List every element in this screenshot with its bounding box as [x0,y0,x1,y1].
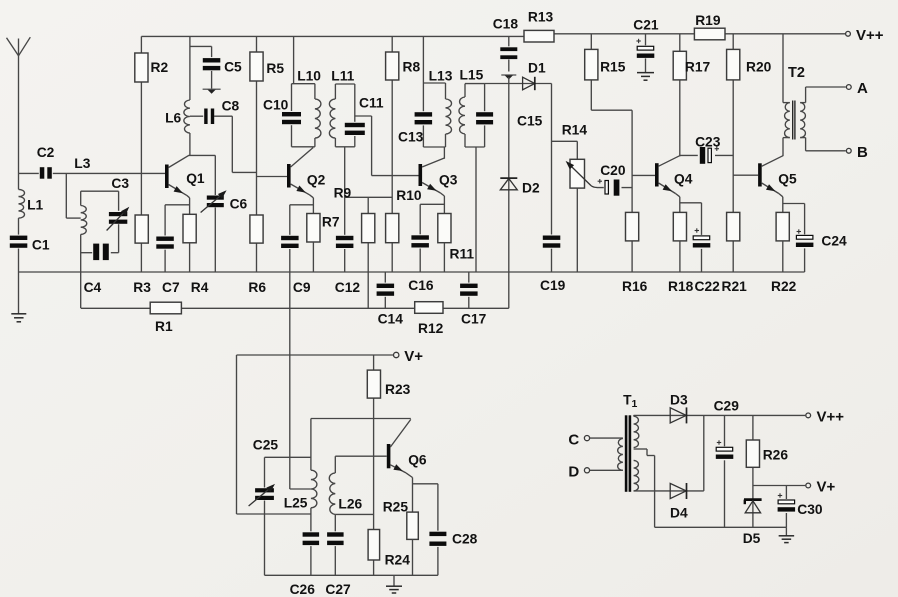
diode D2 [500,178,540,195]
inductor L6 [165,100,190,133]
svg-text:C4: C4 [84,280,102,295]
capacitor C10 [263,98,302,126]
capacitor C29 electrolytic [714,399,740,528]
capacitor C13 [398,111,433,144]
transistor Q3 [419,158,458,193]
svg-text:L26: L26 [338,497,362,512]
terminal V+ power [806,479,836,496]
capacitor C11 [344,96,384,137]
svg-text:R16: R16 [622,279,648,294]
capacitor C15 [475,111,543,128]
svg-text:C6: C6 [230,197,248,212]
diode D4 [670,483,688,521]
svg-text:R14: R14 [562,123,588,138]
wire R11 to bus [443,243,445,272]
wire oscillator bottom rail [265,574,438,576]
resistor R17 [673,51,710,80]
svg-text:V+: V+ [404,348,423,365]
capacitor C22 electrolytic [692,203,720,294]
wire Q5 emitter branch [783,203,805,205]
svg-text:C12: C12 [335,280,361,295]
wire rectifier bottom [634,490,704,492]
wire C lead [590,437,623,439]
wire R18 to bus [679,241,681,272]
wire R7 to bus [312,242,314,272]
wire C5 to ground arrow [211,71,213,89]
inductor L26 [329,456,362,575]
variable capacitor C6 [201,190,248,212]
wire R20 R21 column [732,34,734,272]
svg-text:R1: R1 [155,319,173,334]
svg-text:R24: R24 [385,553,411,568]
wire R5 R6 column [256,36,258,272]
transformer T1 core [625,415,631,492]
wire Q1 collector column from rail [189,36,191,155]
terminal V++ power [806,409,844,426]
transformer T1 secondary upper [634,415,639,447]
svg-text:C21: C21 [633,18,659,33]
svg-text:C15: C15 [517,114,543,129]
wire Q1 emitter elbow [187,195,190,214]
wire Q1 emitter bypass branch [165,205,190,272]
svg-text:Q4: Q4 [674,172,693,187]
svg-text:R8: R8 [403,60,421,75]
svg-text:L1: L1 [27,198,43,213]
wire input tank right edge [118,191,120,253]
inductor L10 [297,69,321,147]
svg-text:R21: R21 [722,279,748,294]
svg-text:C2: C2 [37,145,55,160]
wire L10 tank bottom edge [292,146,315,148]
wire R23 R24 column [373,355,375,575]
wire top supply rail right segment to V++ [554,33,845,35]
resistor R18 [668,212,694,294]
ground [637,73,654,81]
wire Q6 base [335,455,387,457]
svg-text:Q5: Q5 [778,172,797,187]
resistor R21 [722,212,748,294]
inductor L11 [329,69,354,147]
wire L26 bottom to R24 column [335,513,373,515]
svg-text:C26: C26 [290,582,316,597]
svg-text:D1: D1 [528,61,546,76]
wire antenna to C2 node down to L1 [18,173,20,189]
wire Q4 emitter branch [680,202,702,204]
resistor R5 [250,52,284,81]
wire rail feed and L13 tank left edge [422,36,424,147]
wire oscillator collector line [311,418,411,420]
ground [203,89,221,94]
svg-text:B: B [857,144,868,161]
wire Q4 collector column [679,34,681,157]
svg-text:C22: C22 [695,279,721,294]
wire R16 column [631,110,633,272]
wire oscillator V+ rail [237,354,394,356]
wire Q3 emitter branch [420,204,444,272]
svg-text:R17: R17 [685,60,711,75]
svg-text:C23: C23 [695,135,721,150]
wire Q4 emitter elbow [676,194,680,213]
wire C8 left stub [190,115,204,117]
wire Q1 collector horizontal to C6 [189,154,216,156]
capacitor C24 electrolytic [795,204,847,273]
wire input tank bottom edge [81,252,119,254]
capacitor C26 [290,531,321,597]
resistor R9 [334,186,375,243]
wire Q1 base entry [164,172,166,174]
svg-text:C24: C24 [821,234,847,249]
svg-text:C10: C10 [263,98,289,113]
wire L10 tank top edge [292,83,315,85]
svg-text:C17: C17 [461,312,487,327]
svg-text:L11: L11 [331,69,354,84]
wire R9 node [345,196,393,198]
svg-text:A: A [857,80,868,97]
inductor L25 [284,419,317,576]
wire R22 to bus [782,241,784,272]
wire L10 tank left edge [291,84,293,147]
svg-text:C18: C18 [493,17,519,32]
wire Q3 base [372,175,419,177]
wire Q6 emitter elbow [406,473,413,512]
wire C25 bottom column [264,501,266,576]
wire L15 tank bottom stub to bus [475,147,477,272]
wire ground bus [19,271,805,273]
resistor R10 [386,188,422,243]
svg-text:Q3: Q3 [439,173,458,188]
svg-text:V++: V++ [856,27,884,44]
wire R9 column [367,197,369,308]
wire Q5 emitter elbow [779,194,783,213]
svg-text:L15: L15 [460,68,484,83]
wire R14 to bus [576,188,578,272]
wire R4 to bus [189,243,191,272]
terminal V++ [846,27,884,44]
svg-text:L10: L10 [297,69,321,84]
wire D4 output up to top rail [703,415,705,491]
wire L15 tank top edge to detector [465,83,485,85]
capacitor C14 [376,272,404,327]
svg-text:R5: R5 [266,61,284,76]
wire R8 R10 column [391,36,393,272]
svg-text:Q1: Q1 [186,171,205,186]
wire Q2 emitter elbow [310,195,314,214]
wire rail feed to L10 tank [293,36,295,83]
capacitor C4 [84,243,110,295]
svg-text:C8: C8 [222,99,240,114]
svg-text:R4: R4 [191,280,209,295]
wire R26 D5 column [752,415,754,527]
svg-text:C7: C7 [162,280,180,295]
wire L11 bottom stub to R9 node and C12 [344,147,346,272]
capacitor C2 [37,145,55,180]
wire R15 column [591,34,632,110]
svg-text:C27: C27 [325,582,351,597]
wire L15 tank bottom edge [465,146,485,148]
wire C9 oscillator injection line [290,205,311,489]
zener diode D5 [743,500,762,546]
antenna [7,37,31,173]
wire V+ branch [753,485,805,487]
svg-text:L13: L13 [429,69,453,84]
svg-text:R7: R7 [322,215,340,230]
terminal V+ [394,348,424,365]
wire C20 output to bias node [597,187,633,189]
diode D1 [523,61,546,91]
wire secondary to A [806,86,846,88]
inductor L1 [19,189,44,218]
wire L1 to C1 [18,218,20,235]
resistor R1 [150,302,181,334]
svg-text:V++: V++ [817,409,845,426]
svg-text:R26: R26 [763,448,789,463]
transformer T2 core [793,101,795,140]
wire L11 tank top edge [335,83,354,85]
wire power bottom [655,526,787,528]
resistor R25 [383,500,419,540]
wire C19 column from D1 [551,84,553,273]
svg-text:V+: V+ [817,479,836,496]
wire C8 to Q2 base divider [214,116,257,172]
wire Q2 emitter branch to C9 [290,204,314,206]
wire oscillator tank bottom [237,513,311,515]
svg-text:C11: C11 [359,96,384,111]
wire L3 tap [66,173,80,218]
variable capacitor C25 [249,438,279,507]
svg-text:C3: C3 [111,176,129,191]
wire L13 tank bottom edge [423,146,445,148]
svg-text:D2: D2 [522,181,540,196]
svg-text:R18: R18 [668,279,694,294]
svg-text:D3: D3 [670,393,688,408]
wire Q1 base line from antenna to Q1 [19,172,166,174]
svg-text:C30: C30 [797,502,823,517]
terminal C [568,432,589,449]
wire AGC line [81,307,509,309]
svg-text:C25: C25 [253,438,279,453]
capacitor C23 electrolytic [695,135,721,165]
transistor Q2 [287,148,326,195]
wire L15 tank right edge [484,84,486,147]
svg-text:C: C [568,432,579,449]
resistor R2 [135,53,169,82]
wire center tap [634,449,655,527]
svg-text:C14: C14 [378,312,404,327]
svg-text:C20: C20 [600,163,626,178]
resistor R12 [415,302,444,336]
resistor R26 [746,440,788,467]
svg-text:R23: R23 [385,382,411,397]
svg-text:C28: C28 [452,532,478,547]
resistor R15 [585,49,626,80]
capacitor C19 [540,235,566,294]
diode D3 [670,393,688,424]
wire Q6 emitter branch [413,483,438,485]
capacitor C20 electrolytic [598,163,626,197]
capacitor C1 [9,235,50,253]
wire ground stem [785,527,787,536]
transistor Q4 [655,156,693,194]
transformer T1 primary [618,393,638,471]
capacitor C16 [408,234,434,293]
svg-text:R9: R9 [334,186,352,201]
resistor R7 [307,214,340,243]
svg-text:L3: L3 [74,156,90,171]
capacitor C17 [459,272,487,327]
wire oscillator left side [236,355,238,514]
svg-text:R15: R15 [600,60,626,75]
wire detector line [485,83,552,85]
svg-text:C29: C29 [714,399,740,414]
svg-text:R10: R10 [396,188,422,203]
resistor R16 [622,212,648,294]
transistor Q6 [387,419,427,473]
svg-text:T2: T2 [788,65,805,81]
transformer T1 secondary lower [634,460,639,491]
wire C6 column [214,155,216,272]
wire Q3 emitter elbow [441,193,445,214]
wire L11 tap to Q3 base [355,116,372,176]
wire L11 tank right edge [354,84,356,147]
wire input tank left edge [80,191,82,308]
svg-text:D5: D5 [743,531,761,546]
wire top supply rail left segment [141,35,524,37]
resistor R3 [133,215,151,295]
terminal D [568,464,589,481]
ground [386,586,402,593]
wire Q2 base [257,176,288,178]
svg-text:C19: C19 [540,278,566,293]
wire secondary to B [806,150,846,152]
svg-text:L6: L6 [165,111,181,126]
wire C23 line [680,154,733,156]
resistor R13 [524,10,554,43]
svg-text:R22: R22 [771,279,797,294]
svg-text:C1: C1 [32,238,50,253]
ground [779,536,795,543]
wire Q3 collector stub to tank [443,147,445,159]
transistor Q1 [165,155,205,195]
wire D lead [590,469,623,471]
transformer T2 primary [783,34,805,156]
resistor R20 [727,49,772,80]
transformer T2 secondary [800,87,805,151]
capacitor C27 [325,531,351,597]
capacitor C18 [493,17,519,72]
svg-text:R13: R13 [528,10,554,25]
wire Q5 base [733,174,758,176]
svg-text:C13: C13 [398,130,424,145]
svg-text:R6: R6 [248,280,266,295]
wire C25 top jog [265,457,311,487]
terminal A [846,80,868,97]
wire L11 tank bottom edge [335,146,354,148]
capacitor C8 [203,99,239,126]
resistor R23 [367,370,410,398]
svg-text:R11: R11 [450,247,475,262]
potentiometer R14 [562,123,597,189]
svg-text:D4: D4 [670,506,688,521]
wire C5 stub [190,46,212,59]
ground [11,314,26,322]
svg-text:C9: C9 [293,280,311,295]
inductor L13 [429,69,453,148]
resistor R24 [368,530,410,568]
svg-text:R25: R25 [383,500,409,515]
variable capacitor C3 [107,176,130,231]
ground [501,75,516,80]
svg-text:Q6: Q6 [408,453,427,468]
svg-text:D: D [568,464,579,481]
wire volume branch [552,141,578,159]
svg-text:Q2: Q2 [307,173,326,188]
resistor R6 [248,215,266,295]
node L3 tap label [74,156,90,171]
resistor R8 [386,52,421,80]
capacitor C21 electrolytic [633,18,659,73]
svg-text:C5: C5 [224,60,242,75]
svg-text:L25: L25 [284,496,308,511]
svg-text:R20: R20 [746,60,772,75]
capacitor C12 [335,235,361,295]
capacitor C9 [280,235,311,295]
resistor R4 [183,214,209,295]
capacitor C7 [155,236,180,296]
resistor R11 [438,214,475,262]
wire L13 tank top edge [423,82,445,84]
svg-text:R12: R12 [418,321,444,336]
terminal B [846,144,868,161]
svg-text:R2: R2 [151,60,169,75]
inductor L15 [459,68,484,148]
wire D2 AGC column [508,77,510,308]
capacitor C28 [428,484,477,576]
transistor Q5 [758,156,797,194]
wire rectifier top [634,414,806,416]
resistor R22 [771,212,797,294]
wire R25 to rail [412,539,414,575]
svg-text:R19: R19 [695,13,721,28]
wire C1 to bus and ground stem [18,249,20,314]
capacitor C5 [202,57,242,74]
svg-text:R3: R3 [133,280,151,295]
wire ground stem [393,575,395,586]
wire Q4 base [632,174,655,176]
wire input tank top edge [81,190,119,192]
inductor L3 coil [81,206,87,235]
capacitor C30 electrolytic [777,486,823,528]
svg-text:C16: C16 [408,278,434,293]
wire R2 R3 column [140,36,142,272]
resistor R19 [694,13,725,40]
